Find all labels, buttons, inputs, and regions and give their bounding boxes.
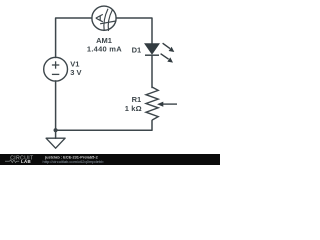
ammeter AM1: [92, 6, 116, 31]
wire ammeter right terminal to LED anode: [116, 18, 152, 44]
watermark logo CIRCUIT: [5, 155, 34, 163]
potentiometer R1 zigzag: [146, 87, 177, 120]
wire R1 bottom to junction: [56, 121, 152, 131]
svg-text:LAB: LAB: [21, 159, 31, 164]
svg-text:D1: D1: [132, 46, 142, 55]
svg-text:AM1: AM1: [96, 36, 112, 45]
node junction dot: [54, 128, 58, 132]
wire ground stub: [55, 130, 57, 138]
svg-text:1 kΩ: 1 kΩ: [125, 104, 142, 113]
svg-text:R1: R1: [132, 95, 142, 104]
svg-text:V1: V1: [70, 59, 79, 68]
voltage source V1: [44, 57, 68, 81]
wire V1 bottom to junction: [55, 81, 57, 130]
watermark logo squiggle: [5, 160, 19, 163]
svg-text:http://circuitlab.com/c62q0mpd: http://circuitlab.com/c62q0mpdebb: [43, 159, 105, 164]
potentiometer R1 wiper line: [163, 103, 178, 105]
watermark bar: [0, 154, 220, 165]
ground symbol: [46, 138, 65, 148]
wire LED cathode to R1 top: [151, 55, 153, 87]
LED D1: [145, 43, 175, 62]
wire V1 top to ammeter left terminal: [56, 18, 92, 58]
potentiometer R1 wiper arrowhead: [157, 102, 163, 107]
svg-text:1.440 mA: 1.440 mA: [87, 45, 122, 54]
svg-text:3 V: 3 V: [70, 68, 81, 77]
